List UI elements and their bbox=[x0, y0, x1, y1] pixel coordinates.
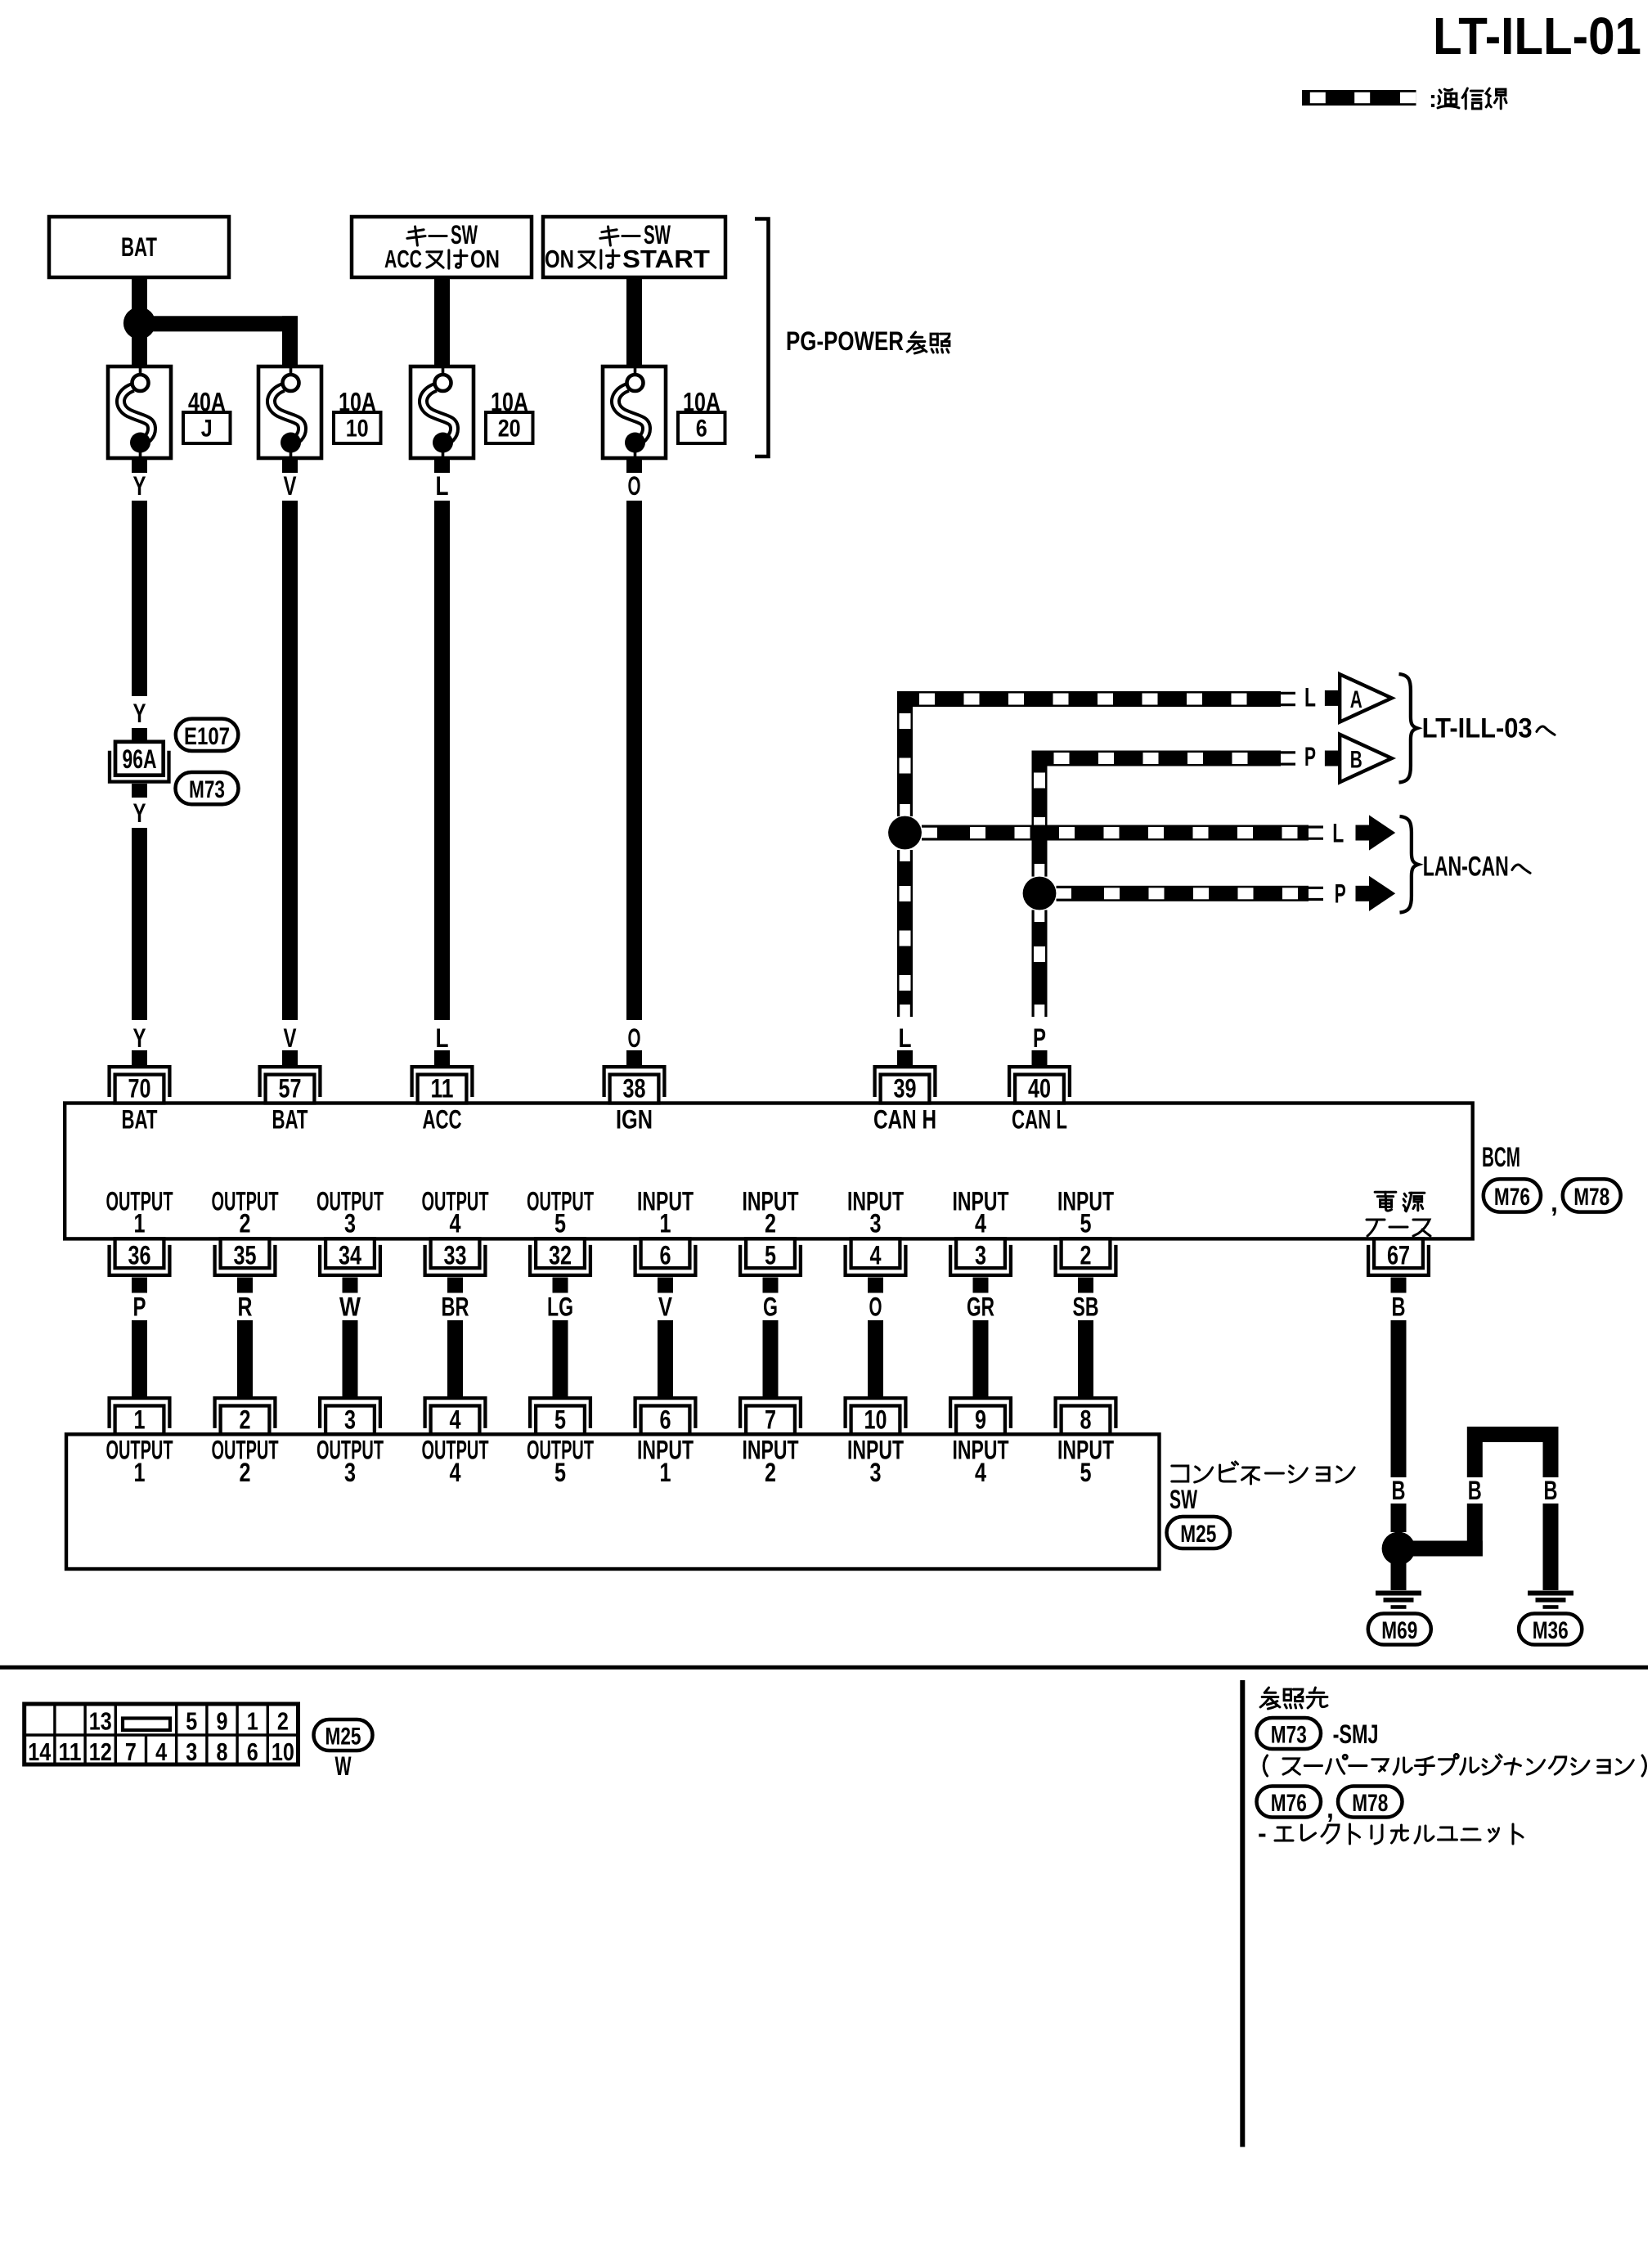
filled arrow P to LAN-CAN bbox=[1356, 876, 1396, 911]
svg-text:M73: M73 bbox=[1271, 1722, 1307, 1749]
svg-text:2: 2 bbox=[240, 1405, 251, 1434]
wire n-shape top bar bbox=[1467, 1427, 1559, 1442]
wire stub below pin 32 bbox=[553, 1278, 568, 1293]
BCM label OUTPUT 2 bbox=[212, 1187, 279, 1238]
svg-text:2: 2 bbox=[277, 1707, 289, 1736]
BCM pin 38 (IGN) bbox=[604, 1067, 665, 1103]
svg-text:B: B bbox=[1392, 1476, 1406, 1505]
BCM pin 70 (BAT) bbox=[110, 1067, 170, 1103]
svg-text:ACC: ACC bbox=[384, 245, 422, 273]
wire W to combination switch bbox=[343, 1320, 358, 1397]
label electrical unit bbox=[1258, 1818, 1523, 1848]
svg-text:M25: M25 bbox=[325, 1724, 361, 1751]
bracket PG-POWER bbox=[755, 219, 949, 457]
BCM label INPUT 2 bbox=[743, 1187, 799, 1238]
wire GR to combination switch bbox=[973, 1320, 989, 1397]
svg-text:5: 5 bbox=[554, 1458, 566, 1487]
svg-text:36: 36 bbox=[128, 1240, 151, 1270]
combination SW pin 4 bbox=[425, 1398, 486, 1434]
wire L bbox=[434, 501, 450, 1020]
fuse 10A/20 bbox=[411, 366, 474, 458]
svg-text:1: 1 bbox=[660, 1458, 671, 1487]
CAN-H vertical checkered line bbox=[897, 691, 913, 1017]
svg-text:1: 1 bbox=[134, 1209, 146, 1238]
label L above BCM pin bbox=[897, 1023, 913, 1065]
svg-text:L: L bbox=[899, 1023, 912, 1053]
BCM pin 3 bbox=[950, 1238, 1011, 1275]
combination SW pin 7 bbox=[740, 1398, 801, 1434]
wire stub below pin 35 bbox=[237, 1278, 253, 1293]
svg-text:BAT: BAT bbox=[122, 1105, 158, 1135]
wire P to combination switch bbox=[132, 1320, 147, 1397]
fuse rating 10A / number 6 bbox=[678, 388, 725, 444]
svg-text:A: A bbox=[1350, 686, 1362, 713]
svg-text:2: 2 bbox=[765, 1458, 776, 1487]
svg-text:IGN: IGN bbox=[616, 1105, 653, 1135]
svg-text:CAN L: CAN L bbox=[1012, 1105, 1067, 1135]
label Y above BCM pin bbox=[132, 1023, 147, 1065]
svg-text:P: P bbox=[1335, 879, 1346, 909]
svg-text:CAN H: CAN H bbox=[873, 1105, 936, 1135]
svg-text:7: 7 bbox=[765, 1405, 776, 1434]
label L above BCM pin bbox=[434, 1023, 450, 1065]
svg-text:38: 38 bbox=[623, 1074, 646, 1104]
BCM label OUTPUT 1 bbox=[106, 1187, 173, 1238]
SW label OUTPUT 4 bbox=[422, 1436, 489, 1488]
wire V to combination switch bbox=[658, 1320, 673, 1397]
wire SB to combination switch bbox=[1078, 1320, 1093, 1397]
BCM pin 35 bbox=[215, 1238, 276, 1275]
BCM label INPUT 3 bbox=[847, 1187, 904, 1238]
wire stub below pin 2 bbox=[1078, 1278, 1093, 1293]
svg-text:START: START bbox=[622, 245, 710, 273]
svg-text:5: 5 bbox=[765, 1240, 776, 1270]
svg-text:2: 2 bbox=[240, 1209, 251, 1238]
svg-text:LAN-CAN: LAN-CAN bbox=[1423, 852, 1509, 883]
svg-text:Y: Y bbox=[133, 1023, 146, 1053]
connector 96A (SMJ) bbox=[110, 742, 169, 782]
label P above BCM pin bbox=[1032, 1023, 1048, 1065]
svg-text:G: G bbox=[763, 1292, 778, 1322]
brace LT-ILL-03 bbox=[1399, 674, 1417, 783]
wire stub below fuse / label L bbox=[434, 458, 450, 501]
svg-text:BCM: BCM bbox=[1482, 1142, 1520, 1173]
svg-text:10: 10 bbox=[272, 1737, 294, 1766]
wire stub below pin 67 bbox=[1391, 1278, 1407, 1293]
svg-text:V: V bbox=[658, 1292, 673, 1322]
svg-text:J: J bbox=[201, 416, 213, 443]
svg-text:5: 5 bbox=[554, 1405, 566, 1434]
SW label OUTPUT 5 bbox=[527, 1436, 594, 1488]
svg-text:11: 11 bbox=[59, 1737, 82, 1766]
BCM pin 34 bbox=[320, 1238, 380, 1275]
wire stub below pin 3 bbox=[973, 1278, 989, 1293]
svg-text:9: 9 bbox=[217, 1707, 228, 1736]
fuse rating 10A / number 10 bbox=[334, 388, 381, 444]
svg-text:3: 3 bbox=[344, 1209, 356, 1238]
connector ref M78 bbox=[1563, 1179, 1621, 1211]
wire junction to ground M69 bbox=[1391, 1557, 1407, 1590]
BCM label OUTPUT 5 bbox=[527, 1187, 594, 1238]
SW label OUTPUT 2 bbox=[212, 1436, 279, 1488]
svg-text:M36: M36 bbox=[1533, 1617, 1569, 1644]
svg-text:L: L bbox=[436, 1023, 449, 1053]
BCM pin 2 bbox=[1056, 1238, 1116, 1275]
svg-text:4: 4 bbox=[975, 1209, 986, 1238]
svg-text:6: 6 bbox=[247, 1737, 258, 1766]
svg-text:,: , bbox=[1551, 1188, 1558, 1217]
svg-text:2: 2 bbox=[1080, 1240, 1092, 1270]
BCM pin 40 (CAN L) bbox=[1009, 1067, 1070, 1103]
connector ref M76 (reference) bbox=[1257, 1787, 1322, 1818]
connector ref E107 bbox=[176, 719, 238, 751]
svg-text:14: 14 bbox=[28, 1737, 52, 1766]
svg-text:39: 39 bbox=[894, 1074, 917, 1104]
svg-text::: : bbox=[1429, 86, 1437, 113]
BCM pin 6 bbox=[635, 1238, 696, 1275]
svg-text:E107: E107 bbox=[184, 723, 230, 750]
svg-text:4: 4 bbox=[155, 1737, 168, 1766]
wire key-SW ACC to fuse 20 bbox=[434, 277, 450, 366]
wire stub below pin 4 bbox=[868, 1278, 883, 1293]
svg-text:96A: 96A bbox=[123, 744, 157, 774]
svg-text:L: L bbox=[1332, 819, 1344, 848]
CAN-L checkered line to arrow B bbox=[1032, 751, 1296, 766]
fuse 40A/J bbox=[108, 366, 171, 458]
svg-text:Y: Y bbox=[133, 471, 146, 501]
connector ref M25 (face view) bbox=[314, 1719, 373, 1751]
SW label INPUT 4 bbox=[953, 1436, 1009, 1488]
ground ref M36 bbox=[1519, 1614, 1582, 1645]
svg-text:33: 33 bbox=[444, 1240, 467, 1270]
wire O bbox=[626, 501, 642, 1020]
wire BR to combination switch bbox=[447, 1320, 463, 1397]
wire down to ground M36 bbox=[1543, 1442, 1559, 1477]
wire stub below pin 6 bbox=[658, 1278, 673, 1293]
connector ref M73 bbox=[176, 772, 239, 804]
arrow A to LT-ILL-03 bbox=[1325, 674, 1392, 721]
svg-text:9: 9 bbox=[975, 1405, 986, 1434]
wire horizontal from junction bbox=[1398, 1541, 1483, 1557]
svg-text:32: 32 bbox=[549, 1240, 572, 1270]
wire R to combination switch bbox=[237, 1320, 253, 1397]
combination switch box bbox=[66, 1434, 1160, 1569]
fuse 10A/6 bbox=[603, 366, 666, 458]
BCM label INPUT 1 bbox=[637, 1187, 694, 1238]
svg-text:SW: SW bbox=[1169, 1485, 1198, 1514]
junction dot BAT split bbox=[123, 307, 155, 339]
svg-text:O: O bbox=[869, 1292, 882, 1322]
svg-text:1: 1 bbox=[660, 1209, 671, 1238]
wire B down bbox=[1391, 1320, 1407, 1477]
connector ref M73 (reference) bbox=[1257, 1718, 1322, 1749]
svg-text:3: 3 bbox=[344, 1458, 356, 1487]
legend label :tsushinsen bbox=[1429, 86, 1506, 113]
junction dot CAN-H bbox=[888, 816, 922, 850]
BCM pin 39 (CAN H) bbox=[875, 1067, 936, 1103]
combination SW pin 6 bbox=[635, 1398, 696, 1434]
svg-text:13: 13 bbox=[89, 1707, 112, 1736]
svg-text:12: 12 bbox=[89, 1737, 112, 1766]
svg-text:M78: M78 bbox=[1573, 1184, 1609, 1211]
svg-text:Y: Y bbox=[133, 699, 146, 728]
wire LG to combination switch bbox=[553, 1320, 568, 1397]
svg-text:SB: SB bbox=[1073, 1292, 1099, 1322]
svg-text:M76: M76 bbox=[1271, 1790, 1307, 1817]
svg-text:M76: M76 bbox=[1494, 1184, 1530, 1211]
svg-text:2: 2 bbox=[240, 1458, 251, 1487]
BCM label OUTPUT 3 bbox=[316, 1187, 384, 1238]
combination SW pin 3 bbox=[320, 1398, 380, 1434]
wire up right (n-shape left leg) bbox=[1467, 1442, 1483, 1477]
svg-text:O: O bbox=[628, 471, 641, 501]
svg-text:70: 70 bbox=[128, 1074, 151, 1104]
svg-text:LT-ILL-01: LT-ILL-01 bbox=[1433, 7, 1641, 65]
BCM pin 36 bbox=[110, 1238, 170, 1275]
svg-text:5: 5 bbox=[554, 1209, 566, 1238]
svg-text:5: 5 bbox=[186, 1707, 197, 1736]
wire junction to fuse 10 (horizontal) bbox=[140, 316, 299, 331]
SW label INPUT 1 bbox=[637, 1436, 694, 1488]
SW label OUTPUT 3 bbox=[316, 1436, 384, 1488]
LAN checkered line L bbox=[922, 825, 1323, 841]
label V above BCM pin bbox=[282, 1023, 298, 1065]
SW label INPUT 3 bbox=[847, 1436, 904, 1488]
svg-text:10: 10 bbox=[346, 416, 369, 443]
svg-text:7: 7 bbox=[125, 1737, 137, 1766]
wire key-SW ON to fuse 6 bbox=[626, 277, 642, 366]
BCM label INPUT 4 bbox=[953, 1187, 1009, 1238]
fuse rating 10A / number 20 bbox=[486, 388, 533, 444]
svg-text:35: 35 bbox=[234, 1240, 257, 1270]
separator line bbox=[0, 1665, 1648, 1670]
svg-text:LT-ILL-03: LT-ILL-03 bbox=[1422, 713, 1533, 744]
svg-text:O: O bbox=[628, 1023, 641, 1053]
combination SW pin 2 bbox=[215, 1398, 276, 1434]
wire B to junction bbox=[1391, 1504, 1407, 1532]
svg-text:-SMJ: -SMJ bbox=[1333, 1719, 1379, 1749]
svg-text:1: 1 bbox=[134, 1458, 146, 1487]
svg-text:67: 67 bbox=[1387, 1240, 1410, 1270]
label combination SW bbox=[1169, 1462, 1354, 1514]
junction dot CAN-L bbox=[1023, 877, 1057, 910]
ground symbol M36 bbox=[1528, 1591, 1573, 1609]
ground symbol M69 bbox=[1376, 1591, 1421, 1609]
brace LAN-CAN bbox=[1400, 816, 1418, 913]
BCM pin 11 (ACC) bbox=[412, 1067, 473, 1103]
svg-text:3: 3 bbox=[186, 1737, 197, 1766]
label sanshousaki (reference) bbox=[1260, 1688, 1280, 1709]
BCM pin 67 (power ground) bbox=[1368, 1238, 1429, 1275]
wire stub below fuse / label O bbox=[626, 458, 642, 501]
svg-text:BR: BR bbox=[442, 1292, 469, 1322]
svg-text:ACC: ACC bbox=[423, 1105, 462, 1135]
svg-text:M25: M25 bbox=[1180, 1521, 1216, 1548]
combination SW pin 8 bbox=[1056, 1398, 1116, 1434]
svg-text:4: 4 bbox=[450, 1405, 461, 1434]
svg-text:2: 2 bbox=[765, 1209, 776, 1238]
svg-text:1: 1 bbox=[247, 1707, 258, 1736]
svg-text:GR: GR bbox=[967, 1292, 994, 1322]
box key-SW ACC/ON bbox=[352, 217, 532, 277]
wire junction down to fuse J bbox=[132, 331, 147, 366]
wire stub below fuse / label V bbox=[282, 458, 298, 501]
label LAN-CANhe bbox=[1423, 852, 1530, 883]
svg-text:10: 10 bbox=[864, 1405, 887, 1434]
wire O to combination switch bbox=[868, 1320, 883, 1397]
svg-text:3: 3 bbox=[870, 1458, 882, 1487]
BCM label DengenArth (power ground) bbox=[1367, 1192, 1430, 1236]
wire BAT to junction bbox=[132, 277, 147, 315]
svg-text:4: 4 bbox=[450, 1458, 461, 1487]
svg-text:20: 20 bbox=[498, 416, 521, 443]
svg-text:34: 34 bbox=[339, 1240, 361, 1270]
svg-text:PG-POWER: PG-POWER bbox=[786, 326, 904, 356]
svg-text:LG: LG bbox=[547, 1292, 573, 1322]
SW label INPUT 5 bbox=[1057, 1436, 1114, 1488]
CAN-H checkered line to arrow A bbox=[897, 691, 1295, 707]
svg-text:V: V bbox=[284, 471, 297, 501]
svg-text:ON: ON bbox=[545, 245, 574, 273]
fuse 10A/10 bbox=[258, 366, 321, 458]
connector ref M25 bbox=[1167, 1517, 1231, 1549]
svg-text:-: - bbox=[1258, 1818, 1267, 1848]
svg-text:W: W bbox=[339, 1292, 361, 1322]
BCM label INPUT 5 bbox=[1057, 1187, 1114, 1238]
svg-text:BAT: BAT bbox=[272, 1105, 308, 1135]
svg-text:P: P bbox=[133, 1292, 146, 1322]
svg-text:3: 3 bbox=[870, 1209, 882, 1238]
svg-text:,: , bbox=[1327, 1794, 1334, 1823]
ground ref M69 bbox=[1368, 1614, 1431, 1645]
combination SW pin 1 bbox=[110, 1398, 170, 1434]
svg-text:5: 5 bbox=[1080, 1458, 1092, 1487]
BCM pin 57 (BAT) bbox=[260, 1067, 321, 1103]
label O above BCM pin bbox=[626, 1023, 642, 1065]
svg-text:ON: ON bbox=[470, 245, 500, 273]
svg-text:3: 3 bbox=[344, 1405, 356, 1434]
svg-text:57: 57 bbox=[279, 1074, 302, 1104]
svg-text:BAT: BAT bbox=[121, 232, 157, 262]
label LT-ILL-03he bbox=[1422, 713, 1555, 744]
svg-text:M73: M73 bbox=[189, 776, 225, 803]
wire stub below pin 5 bbox=[763, 1278, 779, 1293]
svg-text:B: B bbox=[1350, 747, 1362, 774]
connector ref M78 (reference) bbox=[1338, 1787, 1403, 1818]
svg-text:L: L bbox=[436, 471, 449, 501]
wire V bbox=[282, 501, 298, 1020]
BCM pin 4 bbox=[846, 1238, 906, 1275]
svg-text:8: 8 bbox=[1080, 1405, 1092, 1434]
BCM pin 33 bbox=[425, 1238, 486, 1275]
wire stub below pin 34 bbox=[343, 1278, 358, 1293]
wire stub below pin 36 bbox=[132, 1278, 147, 1293]
svg-text:5: 5 bbox=[1080, 1209, 1092, 1238]
junction dot ground bbox=[1382, 1532, 1416, 1566]
svg-text:6: 6 bbox=[660, 1405, 671, 1434]
reference column divider bbox=[1240, 1680, 1245, 2147]
svg-text:P: P bbox=[1304, 742, 1316, 771]
svg-text:8: 8 bbox=[217, 1737, 228, 1766]
svg-text:L: L bbox=[1304, 683, 1316, 712]
connector ref M76 bbox=[1484, 1179, 1541, 1211]
CAN-L vertical checkered line bbox=[1032, 751, 1048, 1018]
filled arrow L to LAN-CAN bbox=[1356, 815, 1396, 850]
BCM box bbox=[65, 1104, 1473, 1239]
svg-text:W: W bbox=[335, 1751, 352, 1781]
arrow B to LT-ILL-03 bbox=[1325, 735, 1392, 782]
SW label OUTPUT 1 bbox=[106, 1436, 173, 1488]
svg-text:6: 6 bbox=[660, 1240, 671, 1270]
wire stub below fuse / label Y bbox=[132, 458, 147, 501]
svg-text:M78: M78 bbox=[1352, 1790, 1388, 1817]
combination SW pin 10 bbox=[846, 1398, 906, 1434]
BCM label OUTPUT 4 bbox=[422, 1187, 489, 1238]
svg-text:B: B bbox=[1468, 1476, 1482, 1505]
box BAT bbox=[49, 217, 229, 277]
LAN checkered line P bbox=[1057, 886, 1324, 901]
svg-text:4: 4 bbox=[450, 1209, 461, 1238]
svg-text:M69: M69 bbox=[1381, 1617, 1417, 1644]
combination SW pin 9 bbox=[950, 1398, 1011, 1434]
svg-text:Y: Y bbox=[133, 798, 146, 828]
svg-text:11: 11 bbox=[431, 1074, 454, 1104]
svg-text:3: 3 bbox=[975, 1240, 986, 1270]
connector face view M25 bbox=[25, 1704, 299, 1766]
svg-text:R: R bbox=[238, 1292, 253, 1322]
wire stub below pin 33 bbox=[447, 1278, 463, 1293]
wire stub into connector 96A bbox=[132, 728, 147, 742]
svg-text:1: 1 bbox=[134, 1405, 146, 1434]
svg-text:4: 4 bbox=[975, 1458, 986, 1487]
wire stub below connector 96A bbox=[132, 784, 147, 798]
BCM pin 32 bbox=[530, 1238, 590, 1275]
fuse rating 40A / number J bbox=[183, 388, 231, 444]
SW label INPUT 2 bbox=[743, 1436, 799, 1488]
label super multiple junction bbox=[1264, 1755, 1267, 1776]
combination SW pin 5 bbox=[530, 1398, 590, 1434]
svg-text:4: 4 bbox=[870, 1240, 882, 1270]
box key-SW ON/START bbox=[543, 217, 725, 277]
svg-text:P: P bbox=[1033, 1023, 1046, 1053]
svg-text:V: V bbox=[284, 1023, 297, 1053]
BCM pin 5 bbox=[740, 1238, 801, 1275]
legend communication-line sample bbox=[1302, 90, 1416, 106]
wire Y lower segment bbox=[132, 828, 147, 1020]
svg-text:B: B bbox=[1392, 1292, 1406, 1322]
svg-text:B: B bbox=[1544, 1476, 1558, 1505]
wire G to combination switch bbox=[763, 1320, 779, 1397]
svg-text:40: 40 bbox=[1028, 1074, 1051, 1104]
wire Y upper segment bbox=[132, 501, 147, 696]
svg-text:6: 6 bbox=[696, 416, 707, 443]
